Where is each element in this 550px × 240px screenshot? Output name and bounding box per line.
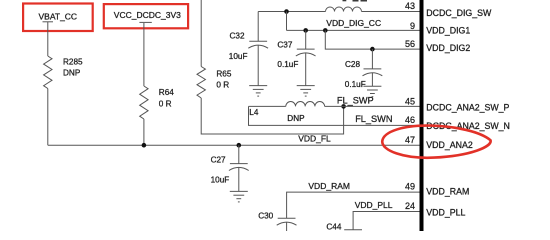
svg-text:VDD_PLL: VDD_PLL	[355, 200, 393, 210]
svg-text:0.1uF: 0.1uF	[345, 80, 366, 89]
wire R64 to VDD_FL rail	[143, 119, 145, 145]
chip edge bar	[420, 0, 424, 231]
svg-text:VDD_DIG2: VDD_DIG2	[426, 43, 470, 53]
node junction on FL_SWP	[341, 104, 346, 109]
svg-text:VDD_RAM: VDD_RAM	[426, 187, 469, 197]
node junction branch pin 56	[323, 28, 328, 33]
capacitor C37	[277, 30, 315, 85]
svg-text:56: 56	[405, 39, 415, 49]
ground under C28	[363, 86, 381, 97]
node junction C27 on VDD_FL	[237, 143, 242, 148]
red highlight ellipse around VDD_ANA2	[382, 126, 490, 158]
resistor R285	[44, 56, 83, 89]
svg-text:0 R: 0 R	[216, 81, 229, 90]
node junction C28	[370, 47, 375, 52]
node junction C37	[303, 28, 308, 33]
wire R65 down, right, up to FL_SWP	[201, 98, 343, 134]
svg-text:0.1uF: 0.1uF	[277, 60, 298, 69]
wire DCDC_DIG_SW rail (pin 43) with inductor L3	[258, 11, 419, 13]
wire from top to R65	[200, 0, 202, 67]
svg-text:DNP: DNP	[63, 68, 81, 77]
wire R285 to VDD_FL rail	[47, 89, 49, 146]
wire VCC_DCDC_3V3 down to R64	[143, 23, 145, 86]
svg-text:VDD_FL: VDD_FL	[298, 134, 331, 144]
svg-text:45: 45	[405, 97, 415, 107]
capacitor C28	[345, 49, 383, 89]
svg-text:L4: L4	[249, 108, 259, 117]
node junction R64 on VDD_FL	[142, 143, 147, 148]
power flag VCC_DCDC_3V3 (red box)	[104, 4, 188, 28]
wire FL_SWP (pin 45) with inductor L4	[249, 96, 420, 107]
svg-text:C30: C30	[258, 212, 273, 221]
inductor L4 (DNP)	[249, 102, 324, 123]
svg-text:VDD_DIG_CC: VDD_DIG_CC	[326, 18, 381, 28]
wire junction down to VDD_DIG_CC rail	[286, 12, 288, 31]
svg-text:43: 43	[405, 1, 415, 11]
svg-text:VDD_RAM: VDD_RAM	[308, 181, 350, 191]
svg-text:C32: C32	[230, 32, 245, 41]
wire VDD_RAM (pin 49)	[287, 181, 420, 218]
svg-text:DNP: DNP	[287, 114, 305, 123]
svg-text:VDD_ANA2: VDD_ANA2	[426, 140, 473, 150]
wire FL_SWN (pin 46) routed around L4	[249, 106, 420, 125]
svg-text:46: 46	[405, 115, 415, 125]
svg-text:FL_SWP: FL_SWP	[337, 96, 374, 106]
capacitor C27	[211, 145, 249, 191]
capacitor C32	[229, 12, 268, 86]
svg-text:R64: R64	[159, 88, 174, 97]
svg-text:C37: C37	[277, 40, 292, 49]
wire branch to pin 56 (VDD_DIG2)	[325, 30, 419, 49]
svg-text:C27: C27	[211, 156, 226, 165]
resistor R64	[140, 86, 175, 119]
svg-text:VCC_DCDC_3V3: VCC_DCDC_3V3	[114, 10, 181, 20]
svg-text:VDD_DIG1: VDD_DIG1	[426, 26, 470, 36]
svg-text:47: 47	[405, 135, 415, 145]
svg-text:0 R: 0 R	[159, 100, 172, 109]
svg-text:VDD_PLL: VDD_PLL	[426, 207, 465, 217]
node junction pin43 rail	[284, 9, 289, 14]
capacitor C30	[258, 212, 296, 232]
clipped inductor value label above L3	[343, 0, 368, 2]
wire VDD_PLL (pin 24)	[353, 200, 419, 230]
svg-text:FL_SWN: FL_SWN	[355, 114, 392, 124]
svg-text:49: 49	[405, 182, 415, 192]
svg-text:R285: R285	[63, 57, 83, 66]
svg-text:DCDC_DIG_SW: DCDC_DIG_SW	[426, 8, 492, 18]
svg-text:DCDC_ANA2_SW_P: DCDC_ANA2_SW_P	[426, 103, 509, 113]
ground under C27	[230, 191, 248, 202]
svg-text:24: 24	[405, 201, 415, 211]
resistor R65	[197, 67, 232, 99]
power flag VBAT_CC (red box)	[23, 4, 93, 32]
ground under C32	[249, 86, 267, 97]
svg-text:10uF: 10uF	[229, 52, 248, 61]
wire VDD_DIG_CC rail (pin 9)	[287, 18, 420, 31]
svg-text:C44: C44	[326, 223, 341, 231]
capacitor C44	[326, 223, 362, 232]
svg-text:10uF: 10uF	[211, 176, 230, 185]
svg-text:9: 9	[410, 21, 415, 31]
wire VDD_FL rail (pin 47)	[48, 134, 420, 146]
inductor L3	[326, 7, 362, 12]
ground under C37	[297, 86, 315, 97]
svg-text:VBAT_CC: VBAT_CC	[39, 12, 78, 22]
wire VBAT_CC down to R285	[47, 22, 49, 56]
svg-text:C28: C28	[345, 60, 360, 69]
svg-text:R65: R65	[216, 70, 231, 79]
